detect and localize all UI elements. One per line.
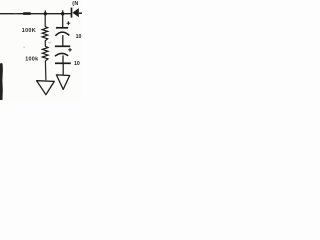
svg-text:10: 10 [76, 34, 82, 40]
svg-text:(N: (N [72, 1, 79, 7]
svg-text:100K: 100K [22, 28, 36, 34]
svg-text:10: 10 [74, 61, 80, 67]
svg-text:100k: 100k [25, 56, 38, 62]
